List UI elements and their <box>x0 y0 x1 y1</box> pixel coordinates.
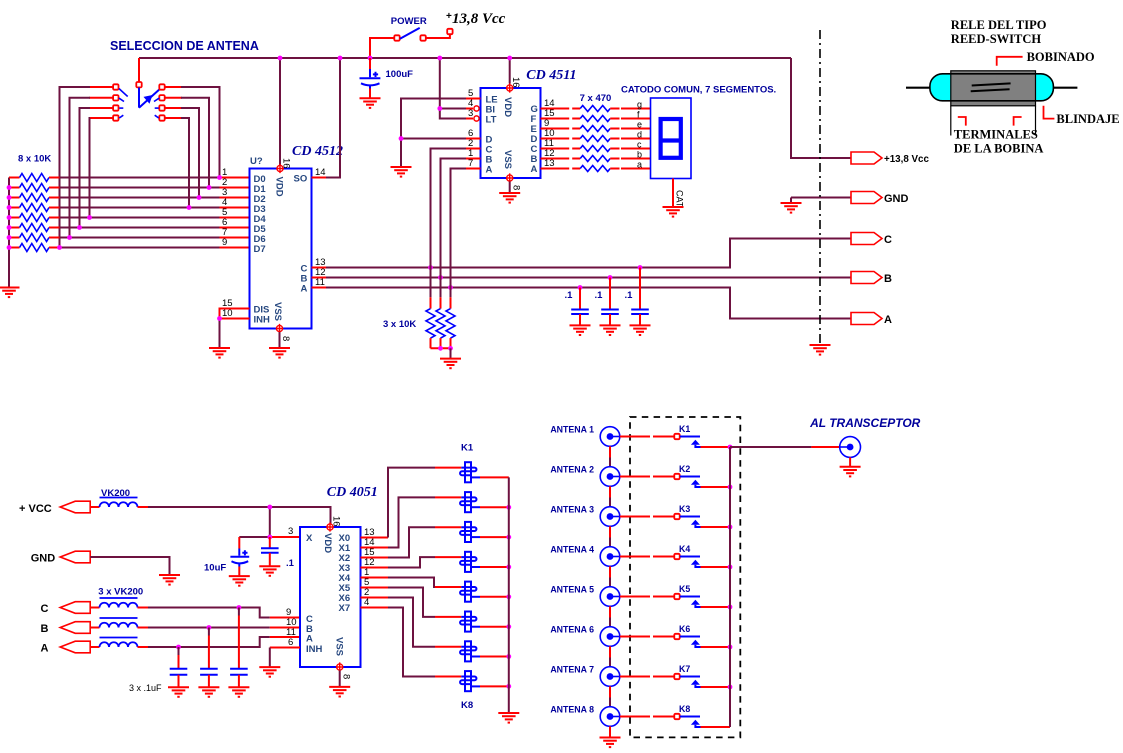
wire segment g <box>621 108 651 110</box>
wire bus to transceptor <box>730 446 811 448</box>
wire X5 to K6 <box>388 588 435 617</box>
svg-text:6: 6 <box>288 637 293 648</box>
wire J3 to K3 b <box>653 516 674 518</box>
wire D0 pin stub <box>220 177 250 179</box>
resistor R10 10K pulldown <box>436 309 445 339</box>
wire C2 to ground <box>579 314 581 325</box>
junction net C / R9 <box>428 265 433 270</box>
wire U2 out 9 stub <box>541 128 570 130</box>
junction net cap C2 <box>578 285 583 290</box>
wire R3 left stub <box>9 197 20 199</box>
antenna connector J8 <box>600 707 620 727</box>
wire U2 B to net B <box>441 159 467 278</box>
wire U2 out 15 stub <box>541 118 570 120</box>
wire DIS/INH to ground <box>219 319 221 349</box>
svg-text:10uF: 10uF <box>204 563 226 574</box>
wire D6 net <box>60 237 220 239</box>
wire K2 coil in <box>435 496 461 498</box>
svg-text:8: 8 <box>511 185 522 190</box>
wire J4 to K4 a <box>620 556 650 558</box>
junction node D5 <box>77 225 82 230</box>
wire K3 coil in <box>435 526 461 528</box>
wire J3 to K3 a <box>620 516 650 518</box>
wire R9 bottom stub <box>430 338 432 348</box>
wire net C <box>326 239 851 268</box>
relay switch lever K2 <box>680 476 700 478</box>
wire K5 coil out <box>480 596 509 598</box>
svg-text:A: A <box>486 165 493 176</box>
connector AL TRANSCEPTOR <box>840 437 861 458</box>
relay switch lever K4 <box>680 556 700 558</box>
wire segment a <box>621 168 651 170</box>
wire left contact 3 to D5 <box>80 108 91 228</box>
wire LE stub <box>466 98 481 100</box>
wire U2 out 11 stub <box>541 148 570 150</box>
wire gnd connector <box>791 197 851 199</box>
svg-text:X: X <box>306 533 313 544</box>
wire cap stem <box>238 616 240 669</box>
wire D7 net <box>60 247 220 249</box>
wire C stub U2 <box>466 148 481 150</box>
junction net A / R11 <box>448 285 453 290</box>
junction cap node <box>176 645 181 650</box>
wire J5 to K5 b <box>653 596 674 598</box>
ground U2 VSS <box>499 193 520 203</box>
reed relay capsule outline over coil <box>951 74 1036 101</box>
junction DIS/INH <box>217 316 222 321</box>
wire R2 right stub <box>49 187 60 189</box>
switch left contact 1 <box>113 84 118 89</box>
ground C1 <box>360 98 381 108</box>
wire to C4 <box>639 268 641 310</box>
resistor R3 10K <box>20 194 50 202</box>
wire U3 C stub <box>270 617 300 619</box>
wire K1 switch out <box>701 446 731 448</box>
svg-text:C: C <box>884 234 892 246</box>
reed relay glass capsule <box>930 74 1054 101</box>
wire K8 coil in <box>435 676 461 678</box>
svg-text:A: A <box>301 284 308 295</box>
wire R3 right stub <box>49 197 60 199</box>
wire to R17 <box>572 158 580 160</box>
wire LT stub <box>466 118 473 120</box>
wire X1 stub <box>361 547 389 549</box>
junction antenna bus K4 <box>728 565 733 570</box>
wire J8 to K8 b <box>653 716 674 718</box>
ground GND connector <box>781 203 802 213</box>
wire K7 coil in <box>435 646 461 648</box>
wire cap upper <box>178 647 180 655</box>
wire K8 coil out <box>480 685 509 687</box>
ground J8 <box>600 738 621 748</box>
connector C bottom <box>60 602 90 614</box>
power pin U2 VDD <box>507 83 513 92</box>
wire rail to switch pole <box>138 58 140 83</box>
svg-text:8: 8 <box>280 336 291 341</box>
junction cap node <box>237 605 242 610</box>
svg-text:VSS: VSS <box>334 637 345 656</box>
wire segment e <box>621 128 651 130</box>
wire J2 to K2 b <box>653 476 674 478</box>
svg-text:ANTENA 1: ANTENA 1 <box>550 425 594 435</box>
junction node D0 <box>217 175 222 180</box>
wire D2 pin stub <box>220 197 250 199</box>
junction antenna bus K3 <box>728 525 733 530</box>
svg-text:K6: K6 <box>679 624 690 634</box>
svg-text:C: C <box>41 603 49 615</box>
svg-text:CD 4051: CD 4051 <box>327 485 378 500</box>
wire J2-J3 lower <box>609 498 611 507</box>
wire J7-J8 upper <box>609 686 611 697</box>
wire C1 to ground <box>369 89 371 99</box>
wire rail to BI/LT <box>440 58 466 119</box>
wire R14 to display <box>610 128 619 130</box>
junction bus/R6 <box>7 225 12 230</box>
wire U3 X stub <box>270 536 300 538</box>
relay switch lever K1 <box>680 436 700 438</box>
power switch terminal right <box>420 35 425 40</box>
svg-text:K4: K4 <box>679 544 690 554</box>
reed relay coil (bobinado) <box>951 71 1036 106</box>
svg-text:16: 16 <box>281 158 292 169</box>
junction antenna bus K6 <box>728 645 733 650</box>
relay coil K5 <box>460 582 480 602</box>
wire J6-J7 upper <box>609 646 611 657</box>
wire R16 to display <box>610 148 619 150</box>
wire X4 stub <box>361 577 389 579</box>
switch left contact 4 <box>113 115 118 120</box>
IC U2 CD4511 body <box>481 88 541 178</box>
wire K2 coil out <box>480 506 509 508</box>
wire X3 to K4 <box>388 557 435 567</box>
wire left contact 1 to D7 <box>60 87 91 248</box>
capacitor C7 .1 <box>261 548 279 553</box>
wire cap to ground <box>208 675 210 688</box>
wire U2 out 10 stub <box>541 138 570 140</box>
switch left contact 2 <box>113 95 118 100</box>
svg-text:ANTENA 8: ANTENA 8 <box>550 705 594 715</box>
pointer terminales left <box>958 117 966 126</box>
wire R17 to display <box>610 158 619 160</box>
capacitor .1uF <box>200 669 218 675</box>
resistor R11 10K pulldown <box>446 309 455 339</box>
svg-text:16: 16 <box>510 77 521 88</box>
svg-text:14: 14 <box>315 167 326 178</box>
wire vcc conn to L1 <box>90 506 99 508</box>
wire J6 to K6 b <box>653 636 674 638</box>
wire X4 to K5 <box>388 578 435 588</box>
junction node D2 <box>197 195 202 200</box>
capacitor C2 .1 <box>571 310 589 315</box>
wire to C3 <box>609 278 611 310</box>
wire K7 switch out <box>701 686 731 688</box>
resistor R18 470 <box>580 166 610 172</box>
relay coil K2 <box>460 492 480 512</box>
svg-text:SELECCION DE ANTENA: SELECCION DE ANTENA <box>110 39 259 53</box>
relay coil K6 <box>460 612 480 632</box>
junction coil bus K8 <box>506 684 511 689</box>
wire D4 net <box>60 217 220 219</box>
wire R5 right stub <box>49 217 60 219</box>
wire segment d <box>621 138 651 140</box>
wire K5 coil in <box>435 586 461 588</box>
wire J6-J7 lower <box>609 658 611 667</box>
IC U3 CD4051 body <box>300 527 361 667</box>
wire segment c <box>621 148 651 150</box>
svg-text:b: b <box>637 150 642 160</box>
resistor R15 470 <box>580 136 610 142</box>
bubble LT pin 3 <box>474 116 479 121</box>
junction BI/LT <box>437 106 442 111</box>
capacitor C3 .1 <box>601 310 619 315</box>
junction node D1 <box>207 185 212 190</box>
wire net B <box>326 277 851 279</box>
svg-text:K8: K8 <box>461 700 473 711</box>
power pin U1 VSS <box>276 324 282 333</box>
wire B stub U2 <box>466 158 481 160</box>
svg-text:K8: K8 <box>679 704 690 714</box>
ground .1uF <box>228 687 249 697</box>
resistor R17 470 <box>580 156 610 162</box>
svg-text:ANTENA 5: ANTENA 5 <box>550 585 594 595</box>
svg-text:CD 4511: CD 4511 <box>526 68 576 83</box>
wire U3 B stub <box>270 627 300 629</box>
svg-text:VDD: VDD <box>274 177 285 197</box>
connector GND <box>851 192 882 204</box>
junction bus/R3 <box>7 195 12 200</box>
connector B bottom <box>60 622 90 634</box>
svg-text:U?: U? <box>250 156 263 167</box>
svg-text:3 x .1uF: 3 x .1uF <box>129 683 162 693</box>
svg-text:11: 11 <box>286 627 296 638</box>
ground display <box>663 207 684 217</box>
7-segment display DS1 <box>651 98 692 179</box>
resistor R5 10K <box>20 214 50 222</box>
switch contact ticks <box>119 89 159 119</box>
wire rail to C1 <box>369 58 371 69</box>
wire J8 to K8 a <box>620 716 650 718</box>
wire right contact 2 to D1 <box>181 98 209 188</box>
relay contact K7 <box>674 674 679 679</box>
wire J3-J4 upper <box>609 526 611 537</box>
switch right contact 1 <box>159 84 164 89</box>
wire SO to rail <box>326 58 340 178</box>
relay contact K4 <box>674 554 679 559</box>
wire J8 to ground <box>609 726 611 737</box>
wire U2 out 13 stub <box>541 168 570 170</box>
resistor R14 470 <box>580 126 610 132</box>
wire R12 to display <box>610 108 619 110</box>
svg-text:A: A <box>306 634 313 645</box>
wire U2 A to net A <box>451 169 467 288</box>
wire U1 11 stub <box>312 287 327 289</box>
wire R1 right stub <box>49 177 60 179</box>
svg-text:+: + <box>446 11 452 22</box>
wire X2 stub <box>361 557 389 559</box>
svg-text:K5: K5 <box>679 584 690 594</box>
wire D5 net <box>60 227 220 229</box>
wire net B to U3 <box>148 627 270 629</box>
wire R10 bottom stub <box>440 338 442 348</box>
wire left contact 3 red <box>89 107 113 109</box>
svg-text:X7: X7 <box>339 603 351 614</box>
svg-text:A: A <box>884 314 892 326</box>
svg-text:16: 16 <box>331 516 342 527</box>
resistor R9 10K pulldown <box>426 309 435 339</box>
junction bus/R8 <box>7 245 12 250</box>
junction coil bus K4 <box>506 565 511 570</box>
capacitor C6 10uF <box>230 549 249 567</box>
reed relay lead wire <box>906 87 1077 89</box>
wire net A to U3 <box>148 637 270 647</box>
junction antenna bus K7 <box>728 685 733 690</box>
junction net cap C4 <box>638 265 643 270</box>
wire INH to ground <box>269 648 271 668</box>
wire cap upper <box>208 628 210 636</box>
svg-text:GND: GND <box>884 193 909 205</box>
svg-text:A: A <box>531 164 538 175</box>
wire K1 coil in <box>435 467 461 469</box>
svg-text:POWER: POWER <box>391 16 427 27</box>
wire resistor common bus <box>8 178 10 288</box>
resistor R8 10K <box>20 244 50 252</box>
svg-text:.1: .1 <box>565 290 574 301</box>
svg-text:VSS: VSS <box>272 302 283 321</box>
junction vcc/X <box>267 505 272 510</box>
dashed enclosure <box>630 417 740 737</box>
wire right contact 2 red <box>165 97 182 99</box>
junction coil bus K6 <box>506 624 511 629</box>
relay contact K2 <box>674 474 679 479</box>
reed relay coil terminals <box>951 106 1036 136</box>
power pin U2 VSS <box>507 173 513 182</box>
wire K6 coil in <box>435 616 461 618</box>
wire rail to +13.8 connector <box>791 58 851 158</box>
svg-text:CD 4512: CD 4512 <box>292 144 343 159</box>
wire net A <box>326 288 851 319</box>
relay switch lever K8 <box>680 716 700 718</box>
junction rail/U2vdd <box>507 56 512 61</box>
ground C2 <box>570 325 591 335</box>
wire transceptor stub <box>811 446 839 448</box>
junction cap node <box>207 625 212 630</box>
wire D0 net <box>60 177 220 179</box>
wire U1 13 stub <box>312 267 327 269</box>
wire K4 coil out <box>480 566 509 568</box>
resistor R1 10K <box>20 174 50 182</box>
svg-text:7: 7 <box>468 158 473 169</box>
wire C coil out <box>138 607 149 609</box>
svg-text:ANTENA 7: ANTENA 7 <box>550 665 594 675</box>
wire B coil out <box>138 627 149 629</box>
wire transceptor ground stem <box>849 457 851 466</box>
wire U2 out 14 stub <box>541 108 570 110</box>
wire right contact 1 red <box>165 86 182 88</box>
ground coil bus <box>498 713 519 723</box>
wire right contact 4 red <box>165 117 182 119</box>
svg-text:+13,8 Vcc: +13,8 Vcc <box>884 154 929 165</box>
junction coil bus K2 <box>506 505 511 510</box>
wire J4-J5 upper <box>609 566 611 577</box>
wire to C7 <box>269 537 271 548</box>
wire SO stub <box>312 177 327 179</box>
svg-text:8 x 10K: 8 x 10K <box>18 154 51 165</box>
svg-text:B: B <box>884 273 892 285</box>
ground .1uF <box>168 687 189 697</box>
wire K8 switch out <box>701 726 731 728</box>
wire J7-J8 lower <box>609 698 611 707</box>
svg-text:GND: GND <box>31 553 56 565</box>
wire J7 to K7 b <box>653 676 674 678</box>
wire R6 right stub <box>49 227 60 229</box>
wire K3 switch out <box>701 526 731 528</box>
svg-text:.1: .1 <box>625 290 634 301</box>
capacitor .1uF <box>230 669 248 675</box>
ground transceptor <box>840 467 861 477</box>
wire X1 to K2 <box>388 497 435 547</box>
svg-text:CAT: CAT <box>675 190 685 208</box>
ground .1uF <box>198 687 219 697</box>
svg-text:100uF: 100uF <box>386 69 414 80</box>
svg-text:8: 8 <box>341 674 352 679</box>
svg-text:4: 4 <box>364 597 369 608</box>
wire DIS <box>220 309 250 319</box>
connector C <box>851 233 882 245</box>
wire +VCC rail to U3 VDD <box>148 507 331 524</box>
svg-text:c: c <box>637 140 642 150</box>
svg-text:K7: K7 <box>679 664 690 674</box>
wire segment b <box>621 158 651 160</box>
wire R1 left stub <box>9 177 20 179</box>
wire D1 net <box>60 187 220 189</box>
junction bus/R7 <box>7 235 12 240</box>
inductor L2 VK200 <box>100 0 138 608</box>
svg-text:d: d <box>637 130 642 140</box>
relay contact K8 <box>674 714 679 719</box>
svg-text:A: A <box>41 643 49 655</box>
wire R4 left stub <box>9 207 20 209</box>
rotary switch SW1 wiper <box>139 88 160 108</box>
svg-text:10: 10 <box>222 308 233 319</box>
svg-text:INH: INH <box>306 644 323 655</box>
svg-text:ANTENA 3: ANTENA 3 <box>550 505 594 515</box>
relay coil K7 <box>460 641 480 661</box>
wire cap stem <box>208 636 210 669</box>
wire J5-J6 upper <box>609 606 611 617</box>
wire X node left <box>239 536 269 538</box>
wire U2 VSS to ground <box>509 182 511 194</box>
svg-text:3 x 10K: 3 x 10K <box>383 319 416 330</box>
svg-text:REED-SWITCH: REED-SWITCH <box>951 32 1042 46</box>
junction antenna bus K1 <box>728 445 733 450</box>
wire D4 pin stub <box>220 217 250 219</box>
wire C3 to ground <box>609 314 611 325</box>
resistor R4 10K <box>20 204 50 212</box>
wire U2 C to net C <box>431 149 467 268</box>
wire to R10 <box>440 278 442 298</box>
resistor R12 470 <box>580 106 610 112</box>
wire C conn to coil <box>90 607 99 609</box>
power switch terminal left <box>394 35 399 40</box>
relay contact K6 <box>674 634 679 639</box>
wire net C to U3 <box>148 608 270 618</box>
wire X0 to K1 <box>388 468 435 538</box>
inductor L1 VK200 <box>100 0 138 507</box>
wire R4 right stub <box>49 207 60 209</box>
wire left contact 4 to D4 <box>89 118 92 218</box>
wire D stub U2 <box>466 138 481 140</box>
wire D7 pin stub <box>220 247 250 249</box>
